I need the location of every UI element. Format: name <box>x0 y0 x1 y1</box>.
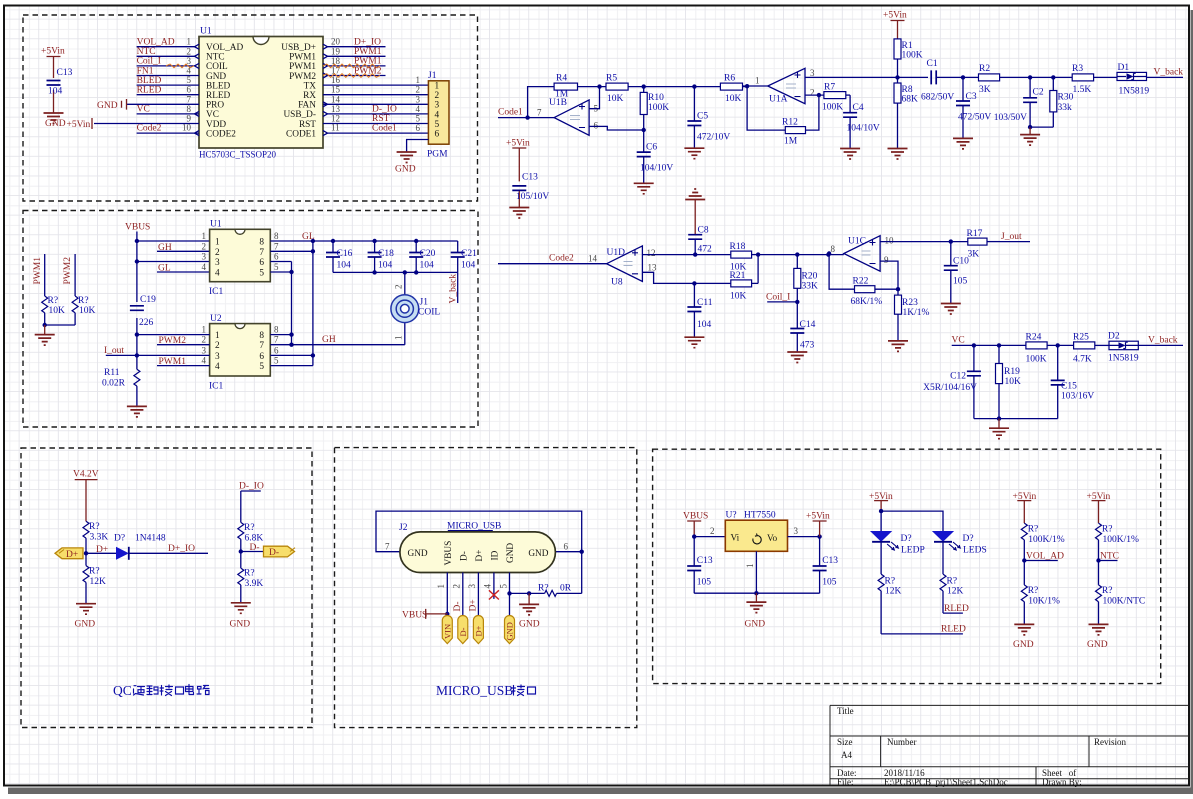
svg-text:3: 3 <box>794 526 799 536</box>
svg-text:Number: Number <box>887 737 917 747</box>
svg-text:USB_D+: USB_D+ <box>281 43 316 53</box>
svg-text:R6: R6 <box>724 74 735 84</box>
svg-text:RLED: RLED <box>944 604 969 614</box>
IC U1 HC5703C_TSSOP20 body <box>195 27 328 160</box>
svg-text:5: 5 <box>274 356 279 366</box>
svg-text:PRO: PRO <box>206 101 224 111</box>
svg-text:C4: C4 <box>853 103 864 113</box>
svg-text:1: 1 <box>215 331 220 341</box>
wire R6 to U1A <box>743 76 768 89</box>
svg-text:Code1: Code1 <box>372 124 397 134</box>
svg-text:VBUS: VBUS <box>444 541 454 566</box>
capacitor C10 105 <box>944 242 969 304</box>
svg-text:PWM2: PWM2 <box>63 257 73 285</box>
svg-text:VC: VC <box>137 105 150 115</box>
wire VBUS to IC1 pin3 <box>137 261 210 263</box>
svg-text:1: 1 <box>436 584 446 589</box>
svg-text:GND: GND <box>75 620 96 630</box>
svg-text:R?: R? <box>1028 525 1039 535</box>
svg-text:RST: RST <box>299 120 316 130</box>
U1 left pin wires 1-10 <box>94 37 199 133</box>
svg-text:GND: GND <box>408 549 428 559</box>
svg-text:472/10V: 472/10V <box>697 133 730 143</box>
svg-text:6: 6 <box>564 542 569 552</box>
svg-text:Code2: Code2 <box>137 124 162 134</box>
svg-text:100K/1%: 100K/1% <box>1028 535 1065 545</box>
svg-text:100K: 100K <box>648 103 669 113</box>
power port +5Vin (regulator out) <box>806 512 830 537</box>
svg-text:C10: C10 <box>953 257 969 267</box>
capacitor C6 104/10V <box>637 130 674 183</box>
wire U1A pin3 to R1/R8 node <box>805 75 928 79</box>
svg-text:D+_IO: D+_IO <box>168 544 195 554</box>
wire U1B pin6 to R10 bottom <box>589 126 646 132</box>
svg-text:472: 472 <box>698 245 713 255</box>
svg-text:Vi: Vi <box>731 534 740 544</box>
svg-text:V_back: V_back <box>449 274 459 304</box>
svg-text:1: 1 <box>755 76 760 86</box>
resistor R30 33k <box>1030 75 1073 127</box>
svg-text:X5R/104/16V: X5R/104/16V <box>923 383 977 393</box>
svg-text:LEDP: LEDP <box>901 546 925 556</box>
svg-text:8: 8 <box>274 325 279 335</box>
svg-text:682/50V: 682/50V <box>921 93 954 103</box>
svg-text:104/10V: 104/10V <box>640 164 673 174</box>
svg-text:+5Vin: +5Vin <box>806 512 830 522</box>
ground below R? 3.9K <box>230 603 251 630</box>
wire pin5 node to resistor and loop <box>510 591 582 595</box>
wire U2 pin6 <box>270 354 313 356</box>
port tag GND <box>505 616 515 644</box>
ground below J1 <box>395 152 417 175</box>
svg-text:R1: R1 <box>902 41 913 51</box>
svg-text:1: 1 <box>202 325 207 335</box>
svg-text:19: 19 <box>331 46 341 56</box>
wire U1 pin6 to node A <box>270 261 291 263</box>
svg-text:472/50V: 472/50V <box>958 113 991 123</box>
svg-text:104: 104 <box>420 261 435 271</box>
svg-text:PWM1: PWM1 <box>354 47 382 57</box>
svg-text:10: 10 <box>885 236 895 246</box>
svg-text:V_back: V_back <box>1148 336 1178 346</box>
svg-text:3K: 3K <box>979 85 991 95</box>
svg-text:1N5819: 1N5819 <box>1119 87 1150 97</box>
capacitor C5 472/10V <box>687 87 730 149</box>
svg-text:R?: R? <box>89 567 100 577</box>
svg-text:0.02R: 0.02R <box>102 379 126 389</box>
wire VBUS to IC1 pin1 <box>137 240 210 242</box>
wire to D- port <box>241 551 264 553</box>
svg-text:4: 4 <box>435 110 440 120</box>
svg-text:D?: D? <box>901 534 912 544</box>
svg-text:R8: R8 <box>902 85 913 95</box>
svg-text:4: 4 <box>215 269 220 279</box>
svg-text:PWM1: PWM1 <box>289 62 316 72</box>
ground below PWM pulldowns <box>35 325 55 345</box>
capacitor C15 103/16V <box>1051 345 1095 418</box>
svg-text:R19: R19 <box>1004 367 1020 377</box>
net label VOL_AD <box>1022 551 1064 562</box>
svg-text:4.7K: 4.7K <box>1073 355 1092 365</box>
wire node A vertical <box>289 262 293 347</box>
svg-text:5: 5 <box>259 269 264 279</box>
svg-text:8: 8 <box>259 331 264 341</box>
wire U1C pin10 to R17 <box>880 239 968 243</box>
capacitor C1 682/50V <box>921 59 965 103</box>
svg-text:20: 20 <box>331 37 341 47</box>
resistor R? 10K (PWM2 pulldown) <box>72 254 95 325</box>
svg-text:NTC: NTC <box>1100 551 1119 561</box>
net label GH (IC1 pin2) <box>157 243 210 253</box>
svg-text:1: 1 <box>202 231 207 241</box>
ground below regulator <box>745 593 767 629</box>
net label RLED (bottom) and wire <box>881 625 966 635</box>
pin4 wire with no-ERC cross <box>483 573 499 600</box>
node D+ junction <box>84 551 88 555</box>
svg-text:R25: R25 <box>1073 332 1089 342</box>
svg-text:IC1: IC1 <box>209 382 224 392</box>
svg-text:GND: GND <box>230 620 251 630</box>
ground below R23 <box>888 341 908 352</box>
svg-text:13: 13 <box>331 104 341 114</box>
svg-text:103/50V: 103/50V <box>994 113 1027 123</box>
svg-text:6: 6 <box>416 123 421 133</box>
U1 right pin wires 20-11 <box>323 37 428 133</box>
svg-text:7: 7 <box>274 335 279 345</box>
net label PWM1 (pin18) <box>323 57 382 68</box>
svg-text:2: 2 <box>202 241 207 251</box>
svg-text:D+: D+ <box>475 550 485 562</box>
svg-text:VBUS: VBUS <box>125 223 150 233</box>
svg-text:R10: R10 <box>648 93 664 103</box>
svg-text:D-_IO: D-_IO <box>372 105 397 115</box>
wire U1A pin2 to R7 <box>805 93 824 97</box>
svg-text:C1: C1 <box>927 59 938 69</box>
svg-text:2: 2 <box>452 584 462 589</box>
capacitor C11 104 <box>687 283 712 337</box>
section title QC adapter (CJK drawn) <box>113 683 209 698</box>
wire R5 to R6 node row <box>628 84 720 88</box>
svg-text:VDD: VDD <box>206 120 226 130</box>
svg-text:104: 104 <box>48 87 63 97</box>
svg-text:R?: R? <box>947 577 958 587</box>
svg-text:8: 8 <box>274 231 279 241</box>
net label V_back (vertical) <box>449 272 459 303</box>
svg-text:RLED: RLED <box>206 91 231 101</box>
svg-text:D+_IO: D+_IO <box>354 38 381 48</box>
capacitor C2 103/50V <box>994 77 1044 129</box>
capacitor C4 104/10V <box>843 95 880 148</box>
svg-text:GND: GND <box>45 119 66 129</box>
pin1 wire and VBUS power port <box>402 573 449 621</box>
svg-text:12: 12 <box>647 248 656 258</box>
svg-text:100K/NTC: 100K/NTC <box>1103 597 1146 607</box>
net label GH and wire U2 pin7 to coil <box>270 335 405 345</box>
svg-text:226: 226 <box>139 318 154 328</box>
capacitor C20 104 <box>409 241 435 272</box>
pin5 wire <box>499 573 512 619</box>
svg-text:R24: R24 <box>1026 332 1042 342</box>
pin2 wire with D- label <box>452 573 463 619</box>
svg-text:VOL_AD: VOL_AD <box>206 43 243 53</box>
svg-text:10K/1%: 10K/1% <box>1028 597 1060 607</box>
svg-text:U1A: U1A <box>769 95 788 105</box>
svg-text:1: 1 <box>435 82 440 92</box>
ground below C14 <box>787 352 807 363</box>
resistor R? 100K/NTC <box>1096 561 1146 625</box>
resistor R? 12K (LEDP) <box>878 542 901 634</box>
svg-text:C13: C13 <box>522 173 538 183</box>
svg-text:C13: C13 <box>822 556 838 566</box>
svg-text:J2: J2 <box>399 523 408 533</box>
dashed block frame mid-left <box>23 211 478 428</box>
power port +5Vin above R1 <box>883 11 907 39</box>
svg-text:U?: U? <box>726 511 737 521</box>
svg-text:FAN: FAN <box>298 101 316 111</box>
svg-text:J1: J1 <box>428 71 437 81</box>
capacitor C14 473 <box>790 302 815 352</box>
svg-text:C13: C13 <box>57 68 73 78</box>
net label Coil_I <box>137 57 194 68</box>
dashed block frame MICRO_USB <box>335 448 637 728</box>
resistor R? 100K/1% (NTC top) <box>1096 523 1140 560</box>
svg-text:5: 5 <box>435 120 440 130</box>
svg-text:LEDS: LEDS <box>963 546 987 556</box>
wire VBUS to U2 pin1 <box>137 334 210 336</box>
svg-text:1M: 1M <box>784 137 798 147</box>
resistor R? 0R <box>538 584 572 597</box>
svg-text:1K/1%: 1K/1% <box>903 308 930 318</box>
svg-text:105: 105 <box>822 578 837 588</box>
svg-text:2: 2 <box>435 91 440 101</box>
port tag D- <box>458 616 468 644</box>
svg-text:VIN: VIN <box>442 624 452 639</box>
port D- <box>264 546 296 558</box>
svg-text:3.9K: 3.9K <box>245 579 264 589</box>
wire VBUS to Vi <box>694 526 725 537</box>
wire ground bus under regulator <box>694 591 819 595</box>
resistor R10 100K <box>640 87 669 130</box>
svg-text:10K: 10K <box>49 306 66 316</box>
svg-text:C5: C5 <box>697 112 708 122</box>
svg-text:D-: D- <box>459 551 469 561</box>
svg-text:3: 3 <box>215 352 220 362</box>
svg-text:R18: R18 <box>730 242 746 252</box>
svg-text:U1: U1 <box>200 27 212 37</box>
svg-text:D1: D1 <box>1118 63 1130 73</box>
resistor R? 10K/1% <box>1021 561 1060 625</box>
wire U1C pin9 jog down <box>880 261 900 291</box>
svg-text:U1B: U1B <box>549 98 567 108</box>
pin3 wire with D+ label <box>467 573 478 619</box>
svg-text:104: 104 <box>337 261 352 271</box>
power port +5Vin (LED rail) <box>869 492 893 513</box>
svg-text:C16: C16 <box>337 249 353 259</box>
svg-text:NTC: NTC <box>206 53 225 63</box>
power port VBUS (HT7550 input) <box>683 512 708 539</box>
svg-text:GND: GND <box>745 620 766 630</box>
dashed block frame top-left <box>23 15 478 201</box>
svg-text:2: 2 <box>215 248 220 258</box>
svg-text:J1: J1 <box>420 298 429 308</box>
svg-text:7: 7 <box>537 107 542 117</box>
svg-text:R?: R? <box>1102 525 1113 535</box>
svg-text:4: 4 <box>483 584 493 589</box>
op-amp U1B <box>537 98 599 135</box>
svg-text:D?: D? <box>963 534 974 544</box>
page shadow bottom <box>8 788 1193 795</box>
wire feedback R4 left <box>528 87 555 118</box>
ground below C5 <box>684 148 704 159</box>
svg-text:C21: C21 <box>461 249 477 259</box>
capacitor C19 226 <box>130 295 156 328</box>
svg-text:6: 6 <box>274 345 279 355</box>
svg-text:4: 4 <box>202 262 207 272</box>
svg-text:7: 7 <box>259 248 264 258</box>
svg-text:D-: D- <box>458 627 468 636</box>
resistor R24 100K <box>1026 332 1074 364</box>
power port GND at pin7 <box>97 99 127 111</box>
svg-text:D-: D- <box>453 601 463 611</box>
svg-text:COIL: COIL <box>418 308 440 318</box>
svg-text:GND: GND <box>528 549 548 559</box>
power port +5Vin with capacitor C13 105/10V <box>506 139 549 219</box>
svg-text:V_back: V_back <box>1154 68 1184 78</box>
svg-text:15: 15 <box>331 85 341 95</box>
title block <box>830 705 1189 786</box>
svg-text:RX: RX <box>303 91 316 101</box>
resistor R12 1M (feedback) <box>747 86 819 146</box>
svg-text:GND: GND <box>506 543 516 563</box>
wire Vo to +5Vin <box>788 526 822 539</box>
svg-text:ID: ID <box>490 550 500 560</box>
svg-text:PWM1: PWM1 <box>289 53 316 63</box>
wire cap bottom bus <box>333 270 458 274</box>
svg-text:+5Vin: +5Vin <box>67 120 91 130</box>
resistor R3 1.5K <box>1030 64 1117 95</box>
svg-text:GND: GND <box>97 101 118 111</box>
svg-text:D-_IO: D-_IO <box>239 482 264 492</box>
svg-text:2: 2 <box>202 335 207 345</box>
svg-text:R?: R? <box>48 296 59 306</box>
svg-text:6: 6 <box>187 85 192 95</box>
connector J1 COIL <box>391 272 440 344</box>
power port +5Vin (NTC divider) <box>1087 492 1111 523</box>
svg-text:12K: 12K <box>885 587 902 597</box>
svg-text:3: 3 <box>202 345 207 355</box>
svg-text:VC: VC <box>206 110 219 120</box>
svg-text:1: 1 <box>215 238 220 248</box>
svg-text:104: 104 <box>378 261 393 271</box>
svg-text:10K: 10K <box>79 306 96 316</box>
port D+ <box>55 548 83 560</box>
capacitor C13 105 (right of reg) <box>813 537 839 594</box>
svg-text:7: 7 <box>274 241 279 251</box>
svg-text:5: 5 <box>416 114 421 124</box>
svg-text:68K/1%: 68K/1% <box>851 297 883 307</box>
svg-text:68K: 68K <box>902 95 919 105</box>
page shadow right <box>1191 10 1193 788</box>
svg-text:5: 5 <box>499 584 509 589</box>
resistor R18 10K <box>730 242 761 273</box>
svg-text:C14: C14 <box>800 320 816 330</box>
svg-text:33k: 33k <box>1058 103 1073 113</box>
wire J1 pin6 to GND <box>407 140 429 153</box>
svg-text:8: 8 <box>259 238 264 248</box>
svg-text:C11: C11 <box>697 298 713 308</box>
svg-text:Coil_I: Coil_I <box>137 57 161 67</box>
svg-text:R?: R? <box>244 569 255 579</box>
net label GL (IC1 pin4) <box>157 263 210 273</box>
svg-text:D2: D2 <box>1108 332 1120 342</box>
ground below C10 <box>941 304 961 315</box>
port tag VIN <box>442 616 452 644</box>
svg-text:1: 1 <box>745 564 755 569</box>
svg-text:R?: R? <box>1102 586 1113 596</box>
resistor R20 33K <box>794 255 818 304</box>
svg-text:Size: Size <box>837 737 853 747</box>
resistor R1 100K <box>894 39 923 78</box>
svg-text:File:: File: <box>837 777 854 787</box>
resistor R? 12K <box>83 553 106 603</box>
svg-text:RLED: RLED <box>941 625 966 635</box>
svg-text:USB_D-: USB_D- <box>283 110 316 120</box>
svg-text:8: 8 <box>831 244 836 254</box>
svg-text:R23: R23 <box>902 298 918 308</box>
power port +5Vin at pin9 <box>67 118 93 130</box>
ground at MICRO_USB <box>519 593 540 629</box>
svg-text:10K: 10K <box>1005 377 1022 387</box>
capacitor C21 104 <box>451 241 477 272</box>
svg-text:R?: R? <box>538 584 549 594</box>
svg-text:I_out: I_out <box>104 346 124 356</box>
svg-text:1N5819: 1N5819 <box>1108 354 1139 364</box>
resistor R? 3.3K <box>83 521 108 553</box>
svg-text:2: 2 <box>187 46 192 56</box>
svg-text:Title: Title <box>837 706 854 716</box>
svg-text:Drawn By:: Drawn By: <box>1042 777 1082 787</box>
net label I_out and wire to U2 pin3 <box>104 346 210 356</box>
svg-text:GND: GND <box>1013 640 1034 650</box>
svg-text:V4.2V: V4.2V <box>73 470 99 480</box>
svg-text:100K/1%: 100K/1% <box>1103 535 1140 545</box>
svg-text:R20: R20 <box>802 272 818 282</box>
diode D2 1N5819 <box>1108 332 1183 364</box>
svg-text:10: 10 <box>182 123 192 133</box>
svg-text:U1: U1 <box>210 220 222 230</box>
svg-text:3K: 3K <box>968 250 980 260</box>
net label J_out <box>1000 232 1030 242</box>
wire U1D pin13 jog to R21 <box>642 272 730 285</box>
svg-text:4: 4 <box>416 104 421 114</box>
svg-text:VC: VC <box>952 336 965 346</box>
svg-text:R7: R7 <box>824 83 835 93</box>
wire VBUS vertical bus <box>135 232 139 370</box>
svg-text:105/10V: 105/10V <box>516 192 549 202</box>
svg-text:104/10V: 104/10V <box>847 124 880 134</box>
ground below R11 <box>127 406 147 417</box>
svg-text:R3: R3 <box>1072 64 1083 74</box>
power port +5Vin (VOL_AD divider) <box>1013 492 1037 523</box>
svg-text:2: 2 <box>710 526 715 536</box>
svg-text:7: 7 <box>385 542 390 552</box>
ground below R8 <box>888 149 908 160</box>
net label PWM2 (U2 pin2) <box>157 336 210 346</box>
resistor R? 100K/1% <box>1021 523 1065 560</box>
svg-text:C13: C13 <box>697 556 713 566</box>
svg-text:+5Vin: +5Vin <box>41 47 65 57</box>
svg-text:473: 473 <box>800 341 815 351</box>
